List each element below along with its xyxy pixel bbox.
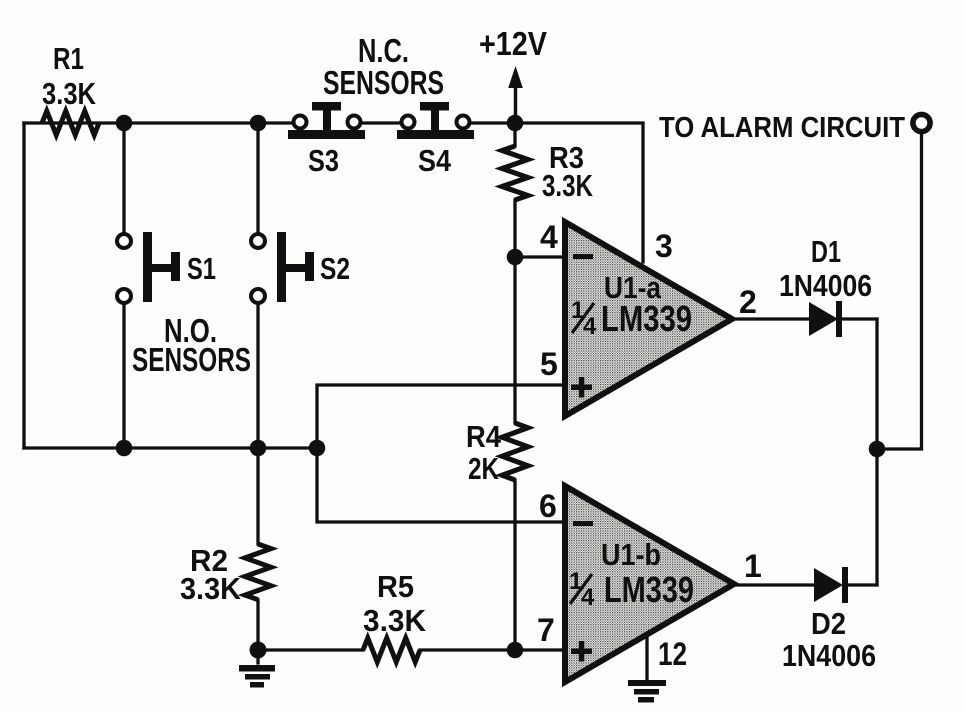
wire divider R3 bottom to pin4 node bbox=[513, 200, 516, 257]
diode D1 bbox=[779, 234, 872, 337]
ground pin12 bbox=[628, 680, 666, 703]
svg-text:12: 12 bbox=[658, 636, 687, 672]
wire right rail vertical bbox=[875, 319, 878, 585]
resistor R2 bbox=[245, 544, 271, 600]
svg-text:S1: S1 bbox=[187, 251, 216, 286]
node dot pin4 bbox=[507, 249, 524, 266]
svg-text:3.3K: 3.3K bbox=[542, 168, 593, 203]
wire pin12 stub bbox=[645, 633, 648, 680]
wire divider pin4 node to R4 bbox=[513, 257, 516, 423]
svg-text:3.3K: 3.3K bbox=[363, 603, 427, 638]
node dot bus S1 bbox=[116, 440, 133, 457]
svg-text:SENSORS: SENSORS bbox=[132, 341, 251, 378]
svg-text:1N4006: 1N4006 bbox=[779, 268, 872, 303]
node dot top S2 bbox=[250, 115, 267, 132]
switch S3 bbox=[288, 102, 365, 178]
svg-text:LM339: LM339 bbox=[601, 298, 692, 339]
svg-text:2: 2 bbox=[739, 284, 757, 320]
svg-text:S2: S2 bbox=[320, 251, 350, 286]
op-amp U1-b bbox=[565, 486, 734, 682]
switch S4 bbox=[397, 102, 474, 178]
node dot ground R2 bbox=[250, 642, 267, 659]
svg-text:5: 5 bbox=[540, 346, 558, 382]
resistor R3 bbox=[502, 146, 528, 200]
node dot pin7 bbox=[507, 642, 524, 659]
wire R2 bottom lead bbox=[256, 600, 259, 663]
svg-text:6: 6 bbox=[539, 488, 557, 524]
svg-text:R1: R1 bbox=[53, 41, 84, 76]
wire pin5 feedback bbox=[317, 385, 565, 522]
resistor R4 bbox=[502, 423, 528, 480]
wire S4 to +12V node bbox=[470, 121, 515, 124]
node dot bus S2 bbox=[250, 440, 267, 457]
svg-text:7: 7 bbox=[537, 612, 555, 648]
wire R4 bottom to pin7 node bbox=[513, 480, 516, 650]
svg-text:U1-b: U1-b bbox=[601, 537, 661, 572]
diode D2 bbox=[782, 567, 876, 673]
power +12V arrow bbox=[514, 86, 518, 123]
wire S3-S4 link bbox=[361, 121, 401, 124]
wire bottom bus bbox=[24, 446, 317, 449]
switch S1 bbox=[117, 232, 216, 303]
svg-text:R4: R4 bbox=[466, 419, 502, 454]
wire divider R3 top lead bbox=[513, 123, 516, 146]
svg-text:4: 4 bbox=[581, 584, 595, 611]
wire ground to R5 bbox=[258, 648, 363, 651]
svg-text:3.3K: 3.3K bbox=[42, 76, 97, 111]
svg-text:4: 4 bbox=[583, 313, 597, 340]
svg-text:4: 4 bbox=[540, 219, 558, 255]
resistor R1 bbox=[42, 111, 99, 135]
wire D2 to right rail bbox=[846, 583, 877, 586]
svg-text:1: 1 bbox=[744, 548, 762, 584]
svg-text:1N4006: 1N4006 bbox=[782, 638, 876, 673]
node dot top R1/S1 bbox=[116, 115, 133, 132]
ground R2 bbox=[239, 665, 275, 688]
svg-text:3: 3 bbox=[655, 228, 673, 264]
wire top bus left segment bbox=[24, 121, 293, 124]
wire S2 bottom lead bbox=[256, 303, 259, 448]
svg-text:S3: S3 bbox=[308, 143, 339, 178]
svg-text:S4: S4 bbox=[418, 143, 452, 178]
wire U1-b output to D2 bbox=[733, 583, 813, 586]
terminal output bbox=[913, 114, 930, 131]
wire S1 top lead bbox=[122, 123, 125, 233]
wire R5 to pin7 bbox=[420, 648, 565, 651]
svg-text:+12V: +12V bbox=[479, 25, 547, 62]
svg-text:D1: D1 bbox=[811, 234, 841, 269]
wire S2 top lead bbox=[256, 123, 259, 233]
svg-text:3.3K: 3.3K bbox=[180, 571, 242, 606]
node dot right rail bbox=[869, 441, 886, 458]
wire R2 top lead bbox=[256, 448, 259, 544]
wire U1-a output to D1 bbox=[730, 317, 809, 320]
svg-text:2K: 2K bbox=[468, 451, 499, 486]
wire D1 to right rail bbox=[840, 317, 877, 320]
op-amp U1-a bbox=[565, 222, 732, 416]
wire left vertical bbox=[22, 123, 25, 448]
wire rail to terminal bbox=[877, 134, 922, 449]
resistor R5 bbox=[363, 638, 420, 662]
wire +12V node to pin3 corner bbox=[515, 123, 643, 262]
svg-text:D2: D2 bbox=[811, 606, 846, 641]
switch S2 bbox=[251, 232, 350, 303]
svg-text:LM339: LM339 bbox=[604, 569, 694, 610]
svg-text:R5: R5 bbox=[377, 569, 414, 604]
node dot +12V bbox=[507, 115, 524, 132]
svg-text:SENSORS: SENSORS bbox=[323, 64, 444, 101]
node dot bus x317 bbox=[309, 440, 326, 457]
wire pin4 bbox=[515, 255, 565, 258]
svg-text:TO ALARM CIRCUIT: TO ALARM CIRCUIT bbox=[659, 112, 905, 144]
wire S1 bottom lead bbox=[122, 303, 125, 448]
